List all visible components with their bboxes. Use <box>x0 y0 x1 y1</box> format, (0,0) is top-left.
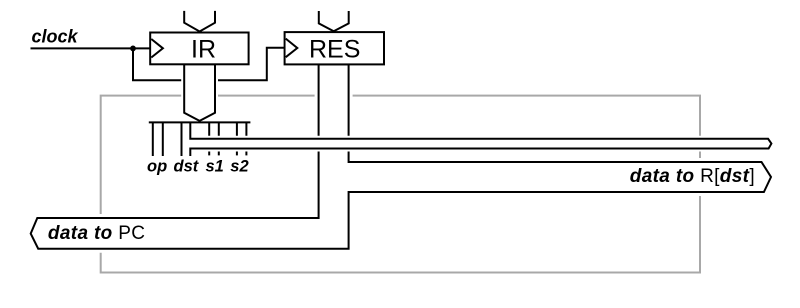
svg-text:data to R[dst]: data to R[dst] <box>630 166 755 187</box>
wire: s1 lower stub b <box>218 149 220 155</box>
splitter bar <box>149 121 251 123</box>
narrow bus: s1/s2 register select to right <box>190 139 771 149</box>
wire: s1 lower stub a <box>208 149 210 155</box>
wire: clock input <box>31 47 151 49</box>
junction: clock node <box>130 46 136 52</box>
wide arrow: input into RES <box>319 11 349 31</box>
wide result bus: RES down, tee to data-to-R[dst] (right) and data-to-PC (left) <box>31 64 771 248</box>
wide arrow: input into IR <box>184 11 215 32</box>
svg-text:data to PC: data to PC <box>48 223 145 244</box>
register IR <box>150 33 248 65</box>
wire: dst field bit 1 <box>181 122 183 156</box>
svg-text:clock: clock <box>32 27 79 47</box>
wire: op field bit 2 <box>162 122 164 156</box>
wire: s1 field stub a <box>208 122 210 137</box>
svg-text:op: op <box>147 158 167 176</box>
datapath boundary (gray box) <box>101 96 700 273</box>
wire: s2 field stub a <box>236 122 238 137</box>
register RES <box>285 32 384 64</box>
svg-text:RES: RES <box>309 35 360 63</box>
wide arrow: IR output (instruction bus down) <box>184 64 215 121</box>
wire: clock feedback to RES <box>133 48 285 81</box>
svg-text:dst: dst <box>174 158 200 176</box>
svg-text:s2: s2 <box>230 158 248 176</box>
svg-text:IR: IR <box>191 35 216 63</box>
wire: op field bit 1 <box>152 122 154 156</box>
wire: s1 field stub b <box>218 122 220 137</box>
wire: s2 lower stub a <box>236 149 238 155</box>
wire: s2 lower stub b <box>245 149 247 155</box>
wire: s2 field stub b <box>245 122 247 137</box>
svg-text:s1: s1 <box>206 158 224 176</box>
